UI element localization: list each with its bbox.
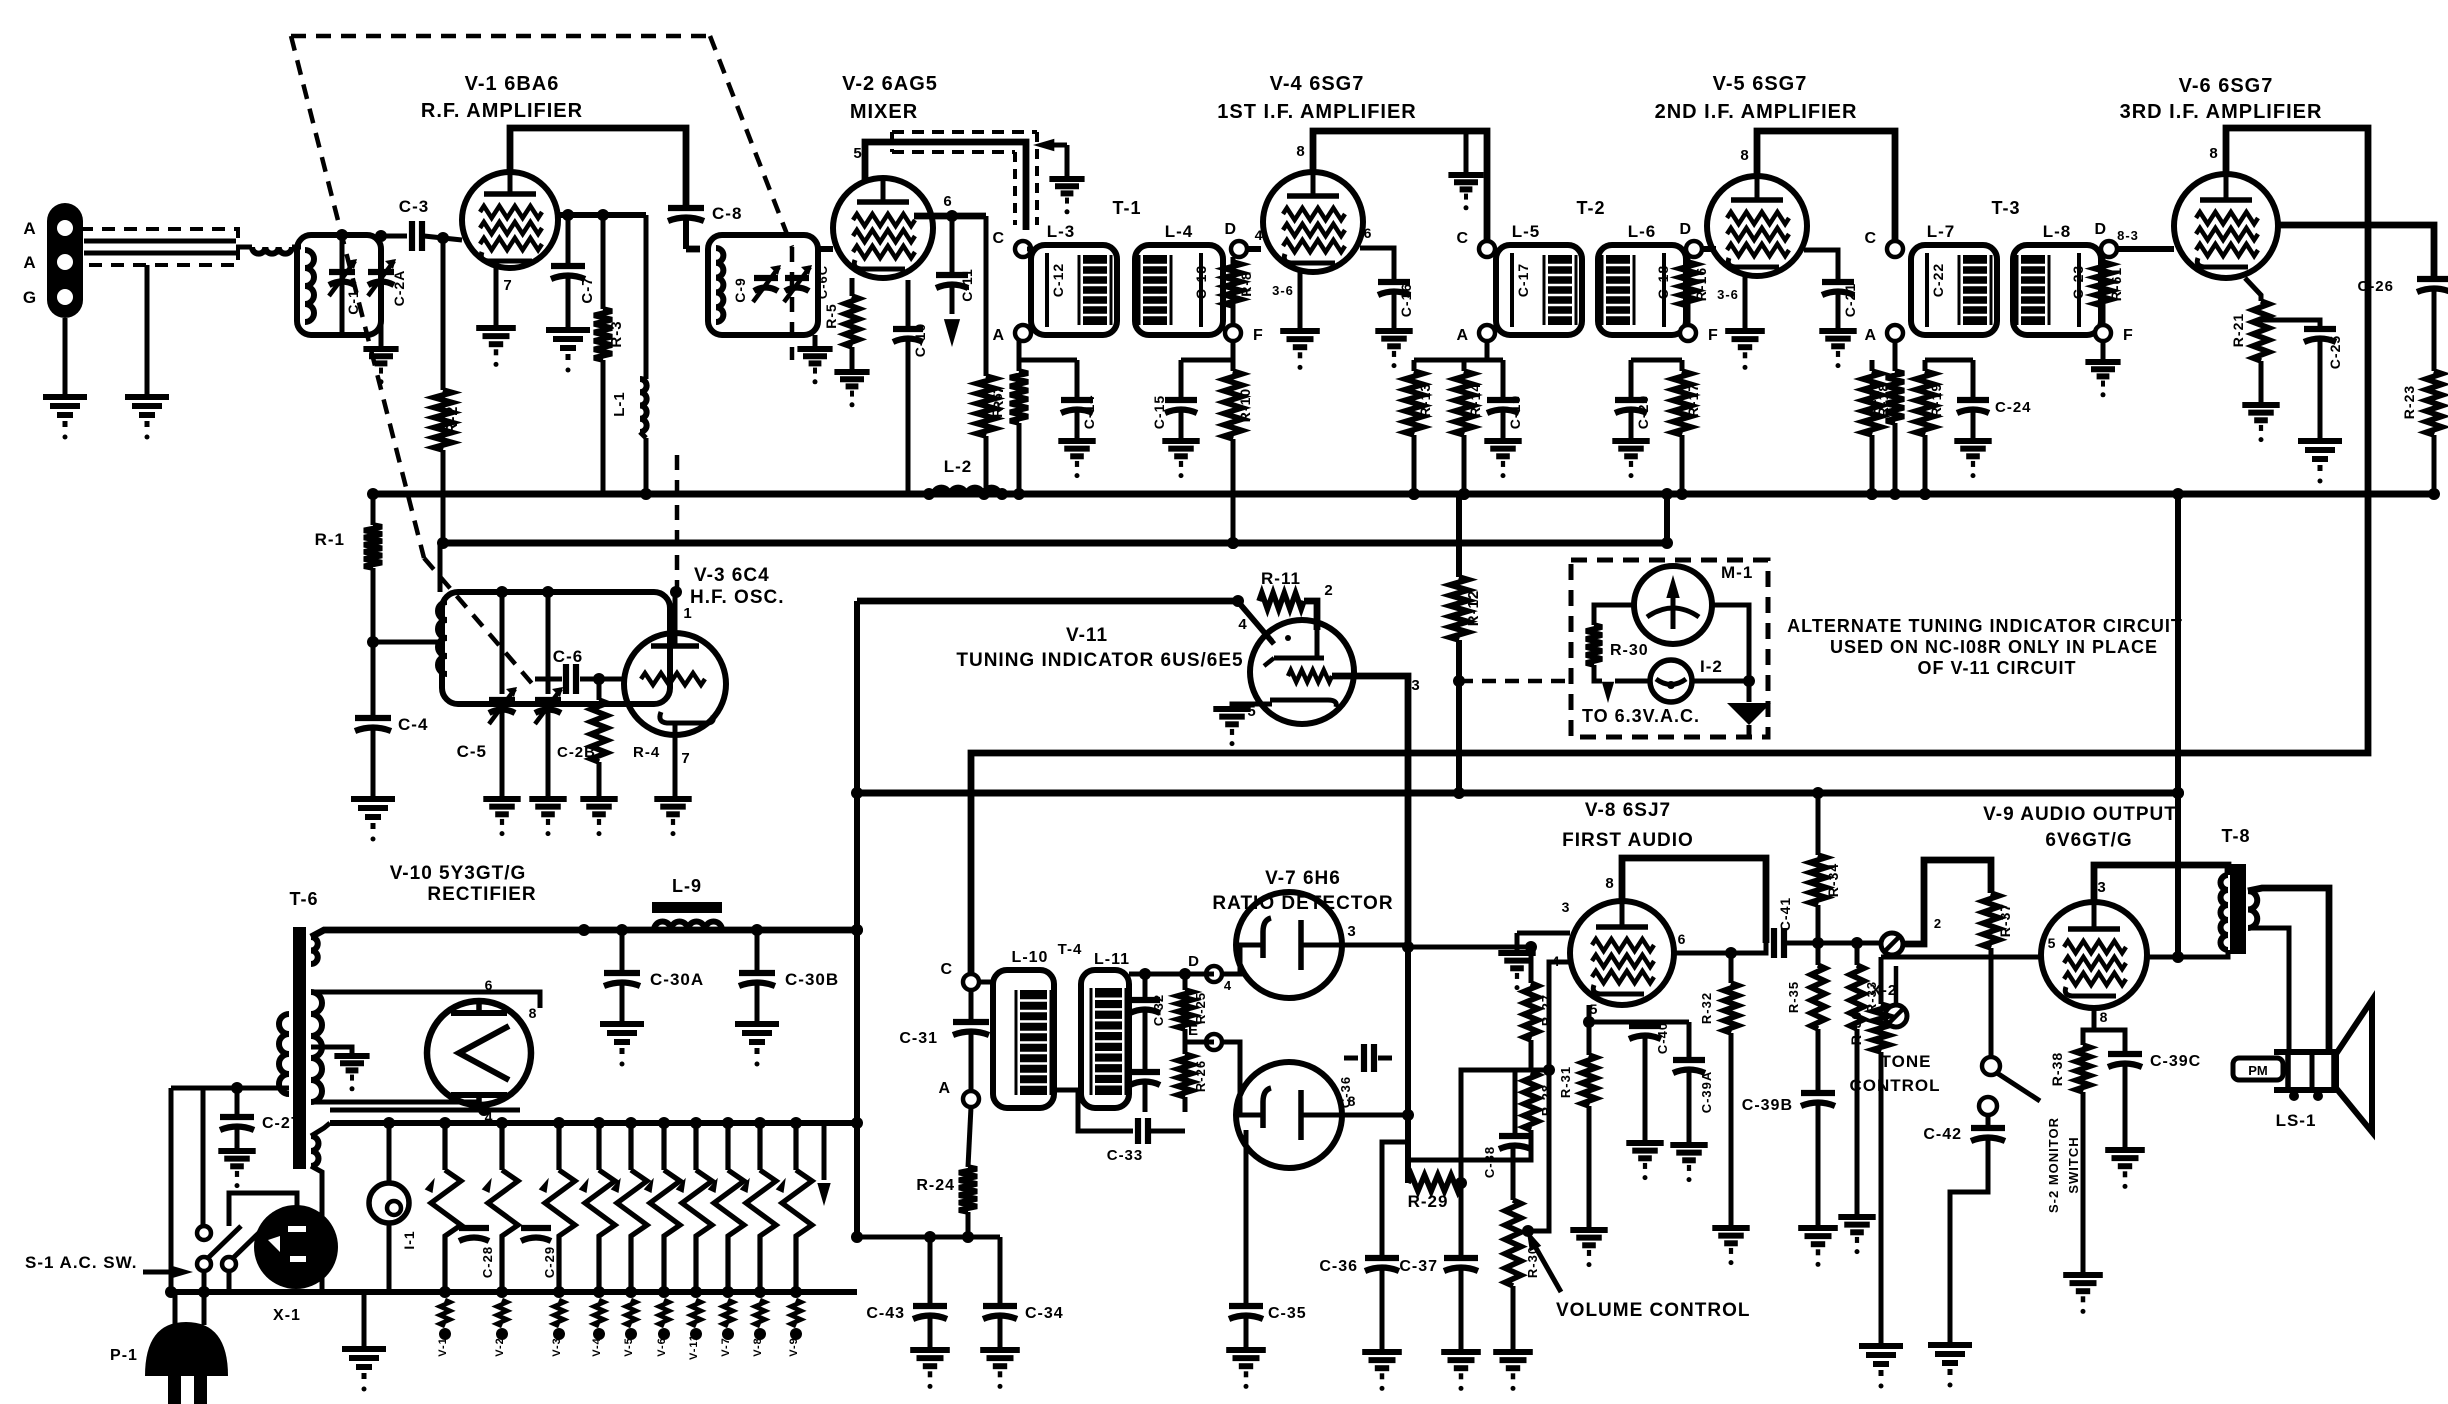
svg-text:TO 6.3V.A.C.: TO 6.3V.A.C.	[1582, 706, 1700, 726]
svg-text:R-13: R-13	[1417, 383, 1433, 417]
svg-text:TONE: TONE	[1881, 1052, 1932, 1071]
svg-text:L-8: L-8	[2043, 222, 2072, 241]
svg-text:V-5: V-5	[623, 1337, 635, 1357]
svg-text:L-3: L-3	[1047, 222, 1076, 241]
svg-text:A: A	[938, 1080, 951, 1097]
svg-text:3: 3	[1562, 899, 1571, 915]
svg-text:R-14: R-14	[1467, 383, 1483, 417]
svg-text:R-4: R-4	[633, 744, 660, 761]
svg-text:D: D	[1224, 221, 1237, 238]
svg-text:G: G	[23, 288, 37, 307]
svg-text:8: 8	[1605, 875, 1614, 892]
svg-text:R-37: R-37	[1997, 903, 2013, 937]
svg-text:C-21: C-21	[1842, 283, 1858, 317]
svg-text:T-1: T-1	[1112, 198, 1141, 218]
svg-text:8-3: 8-3	[2117, 228, 2139, 243]
svg-text:E: E	[1188, 1022, 1199, 1039]
svg-text:C-3: C-3	[399, 197, 429, 216]
svg-text:6: 6	[485, 977, 494, 993]
svg-text:V-1 6BA6: V-1 6BA6	[465, 73, 560, 95]
svg-text:PM: PM	[2248, 1063, 2268, 1078]
svg-text:R-17: R-17	[1685, 383, 1701, 417]
svg-text:C-43: C-43	[866, 1305, 905, 1322]
svg-text:C-32: C-32	[1151, 994, 1166, 1026]
svg-text:C-22: C-22	[1930, 263, 1946, 297]
svg-text:R-30: R-30	[1610, 642, 1649, 659]
svg-text:L-2: L-2	[944, 457, 973, 476]
svg-text:6: 6	[943, 193, 952, 210]
svg-text:L-9: L-9	[672, 876, 702, 896]
svg-text:SWITCH: SWITCH	[2066, 1136, 2081, 1193]
svg-text:R-5: R-5	[823, 303, 839, 329]
svg-text:R-36: R-36	[1848, 1011, 1864, 1045]
svg-text:R-10: R-10	[1237, 388, 1253, 422]
svg-text:C-7: C-7	[579, 276, 596, 303]
svg-text:C-20: C-20	[1635, 395, 1651, 429]
svg-text:T-3: T-3	[1991, 198, 2020, 218]
svg-text:C-38: C-38	[1482, 1146, 1497, 1178]
svg-text:C-12: C-12	[1050, 263, 1066, 297]
svg-text:A: A	[1456, 327, 1469, 344]
svg-text:D: D	[2094, 221, 2107, 238]
svg-text:C-36: C-36	[1338, 1076, 1353, 1108]
svg-text:C-5: C-5	[457, 742, 487, 761]
svg-text:R-3: R-3	[608, 320, 625, 347]
svg-text:C-8: C-8	[712, 204, 742, 223]
svg-text:V-10 5Y3GT/G: V-10 5Y3GT/G	[390, 863, 527, 884]
svg-text:L-11: L-11	[1094, 951, 1130, 968]
svg-text:R-32: R-32	[1699, 992, 1714, 1024]
svg-text:R-35: R-35	[1786, 981, 1801, 1013]
svg-text:A: A	[23, 219, 36, 238]
svg-text:R-19: R-19	[1928, 383, 1944, 417]
svg-text:C-25: C-25	[2327, 335, 2343, 369]
svg-text:C-6C: C-6C	[815, 265, 830, 299]
svg-text:C: C	[1456, 230, 1469, 247]
svg-text:A: A	[1864, 327, 1877, 344]
svg-text:R-61: R-61	[2108, 267, 2124, 301]
svg-text:D: D	[1679, 221, 1692, 238]
svg-text:L-7: L-7	[1927, 222, 1956, 241]
svg-text:USED ON NC-I08R ONLY IN PLACE: USED ON NC-I08R ONLY IN PLACE	[1830, 637, 2158, 657]
svg-text:R.F. AMPLIFIER: R.F. AMPLIFIER	[421, 100, 583, 122]
svg-text:TUNING INDICATOR 6US/6E5: TUNING INDICATOR 6US/6E5	[956, 650, 1243, 671]
svg-text:C-34: C-34	[1025, 1305, 1064, 1322]
svg-text:T-4: T-4	[1058, 941, 1083, 958]
svg-text:A: A	[992, 327, 1005, 344]
svg-text:C-6: C-6	[553, 647, 583, 666]
svg-text:C-19: C-19	[1507, 395, 1523, 429]
svg-text:C-37: C-37	[1399, 1258, 1438, 1275]
svg-text:C-14: C-14	[1081, 395, 1097, 429]
svg-text:C-27: C-27	[262, 1115, 301, 1132]
svg-text:V-2: V-2	[494, 1337, 506, 1357]
svg-text:2ND I.F. AMPLIFIER: 2ND I.F. AMPLIFIER	[1655, 101, 1858, 123]
svg-text:F: F	[1708, 327, 1719, 344]
svg-text:3: 3	[1411, 677, 1420, 694]
svg-text:C-1: C-1	[345, 289, 361, 315]
svg-text:V-4 6SG7: V-4 6SG7	[1270, 73, 1365, 95]
svg-text:C-29: C-29	[542, 1246, 557, 1278]
svg-text:5: 5	[2048, 935, 2057, 951]
svg-text:V-3 6C4: V-3 6C4	[694, 565, 770, 586]
svg-text:T-8: T-8	[2221, 826, 2250, 846]
svg-text:8: 8	[1740, 147, 1749, 164]
svg-text:R-34: R-34	[1825, 863, 1841, 897]
svg-text:8: 8	[2209, 145, 2218, 162]
svg-text:4: 4	[1552, 953, 1561, 969]
svg-text:C-36: C-36	[1319, 1258, 1358, 1275]
svg-text:V-6: V-6	[656, 1337, 668, 1357]
svg-text:R-8: R-8	[1238, 271, 1254, 297]
svg-text:L-10: L-10	[1012, 949, 1049, 966]
svg-text:H.F. OSC.: H.F. OSC.	[690, 587, 785, 608]
svg-text:C-15: C-15	[1151, 395, 1167, 429]
svg-text:1ST I.F. AMPLIFIER: 1ST I.F. AMPLIFIER	[1217, 101, 1417, 123]
svg-text:2: 2	[1934, 916, 1942, 931]
svg-text:C-10: C-10	[912, 323, 928, 357]
svg-text:R-2: R-2	[444, 406, 461, 435]
svg-text:C-23: C-23	[2070, 265, 2086, 299]
svg-text:C-11: C-11	[959, 268, 975, 302]
svg-text:A: A	[23, 253, 36, 272]
svg-text:4: 4	[1224, 978, 1232, 993]
svg-text:R-1: R-1	[315, 530, 345, 549]
svg-text:S-1 A.C. SW.: S-1 A.C. SW.	[25, 1253, 137, 1272]
svg-text:3-6: 3-6	[1272, 283, 1294, 298]
svg-text:V-8 6SJ7: V-8 6SJ7	[1585, 800, 1671, 821]
svg-text:6: 6	[1678, 931, 1687, 947]
svg-text:R-29: R-29	[1408, 1192, 1449, 1211]
svg-text:C-13: C-13	[1193, 265, 1209, 299]
svg-text:V-2 6AG5: V-2 6AG5	[842, 73, 938, 95]
svg-text:C: C	[992, 230, 1005, 247]
svg-text:C: C	[940, 961, 953, 978]
svg-text:R-23: R-23	[2401, 385, 2417, 419]
svg-text:C-30A: C-30A	[650, 970, 704, 989]
svg-text:C-40: C-40	[1655, 1022, 1670, 1054]
svg-text:C-42: C-42	[1923, 1126, 1962, 1143]
svg-text:R-16: R-16	[1693, 267, 1709, 301]
svg-text:C-39A: C-39A	[1699, 1071, 1714, 1114]
svg-text:R-38: R-38	[2049, 1052, 2065, 1086]
svg-text:3RD I.F. AMPLIFIER: 3RD I.F. AMPLIFIER	[2120, 101, 2323, 123]
svg-text:3: 3	[2097, 879, 2106, 896]
svg-text:X-1: X-1	[273, 1307, 301, 1324]
svg-text:C-2A: C-2A	[391, 270, 407, 307]
svg-text:C-26: C-26	[2357, 278, 2394, 295]
svg-text:C-39B: C-39B	[1742, 1097, 1793, 1114]
svg-text:7: 7	[503, 277, 512, 294]
svg-text:R-25: R-25	[1193, 992, 1208, 1024]
svg-text:3: 3	[1347, 923, 1356, 940]
svg-text:C-41: C-41	[1777, 897, 1793, 931]
svg-text:8: 8	[2100, 1009, 2109, 1025]
svg-text:C-35: C-35	[1268, 1305, 1307, 1322]
svg-text:2: 2	[1324, 582, 1333, 599]
svg-text:R-31: R-31	[1558, 1066, 1573, 1098]
svg-text:L-6: L-6	[1628, 222, 1657, 241]
svg-text:C-4: C-4	[398, 715, 428, 734]
svg-text:D: D	[1188, 953, 1200, 970]
svg-text:V-9 AUDIO OUTPUT: V-9 AUDIO OUTPUT	[1983, 804, 2177, 825]
svg-text:C-18: C-18	[1655, 265, 1671, 299]
svg-text:RECTIFIER: RECTIFIER	[427, 884, 536, 905]
svg-text:FIRST AUDIO: FIRST AUDIO	[1562, 830, 1694, 851]
svg-text:R-30: R-30	[1525, 1246, 1540, 1278]
svg-text:VOLUME CONTROL: VOLUME CONTROL	[1556, 1300, 1751, 1321]
svg-text:V-7 6H6: V-7 6H6	[1265, 868, 1341, 889]
svg-text:R-26: R-26	[1193, 1060, 1208, 1092]
svg-text:I-1: I-1	[401, 1230, 417, 1249]
svg-text:V-9: V-9	[788, 1337, 800, 1357]
svg-text:C-30B: C-30B	[785, 970, 839, 989]
svg-text:R-7: R-7	[990, 385, 1006, 411]
svg-text:5: 5	[1247, 703, 1256, 720]
svg-text:R-21: R-21	[2230, 313, 2246, 347]
svg-text:C-17: C-17	[1515, 263, 1531, 297]
svg-text:CONTROL: CONTROL	[1849, 1076, 1940, 1095]
svg-text:T-2: T-2	[1576, 198, 1605, 218]
svg-text:C-33: C-33	[1107, 1147, 1144, 1164]
svg-text:C-39C: C-39C	[2150, 1053, 2201, 1070]
svg-text:7: 7	[681, 750, 690, 767]
svg-text:R-24: R-24	[916, 1177, 955, 1194]
svg-text:C-24: C-24	[1995, 399, 2032, 416]
svg-text:C: C	[1864, 230, 1877, 247]
svg-text:R-11: R-11	[1261, 569, 1301, 588]
svg-text:LS-1: LS-1	[2276, 1111, 2317, 1130]
svg-text:V-8: V-8	[752, 1337, 764, 1357]
svg-text:V-5 6SG7: V-5 6SG7	[1713, 73, 1808, 95]
svg-text:V-1: V-1	[437, 1337, 449, 1357]
svg-text:P-1: P-1	[110, 1347, 138, 1364]
svg-text:L-1: L-1	[611, 391, 628, 417]
svg-text:OF V-11 CIRCUIT: OF V-11 CIRCUIT	[1917, 658, 2076, 678]
svg-text:T-6: T-6	[289, 889, 318, 909]
svg-text:8: 8	[529, 1005, 538, 1021]
svg-text:L-5: L-5	[1512, 222, 1541, 241]
svg-text:5: 5	[853, 145, 862, 162]
svg-text:V-4: V-4	[591, 1337, 603, 1357]
svg-text:R-20: R-20	[1866, 381, 1882, 415]
svg-text:V-7: V-7	[720, 1337, 732, 1357]
svg-text:MIXER: MIXER	[850, 101, 918, 123]
svg-text:C-9: C-9	[732, 277, 748, 303]
svg-text:ALTERNATE TUNING INDICATOR CIR: ALTERNATE TUNING INDICATOR CIRCUIT	[1787, 616, 2183, 636]
svg-text:M-1: M-1	[1721, 563, 1753, 582]
svg-text:R-12: R-12	[1465, 590, 1482, 627]
svg-text:5: 5	[1590, 1001, 1599, 1017]
svg-text:V-6 6SG7: V-6 6SG7	[2179, 75, 2274, 97]
svg-text:F: F	[2123, 327, 2134, 344]
svg-text:V-3: V-3	[551, 1337, 563, 1357]
svg-text:V-11: V-11	[1066, 625, 1108, 646]
svg-text:6: 6	[1364, 225, 1373, 241]
svg-text:S-2 MONITOR: S-2 MONITOR	[2046, 1117, 2061, 1213]
svg-text:L-4: L-4	[1165, 222, 1194, 241]
svg-text:C-28: C-28	[480, 1246, 495, 1278]
svg-text:3-6: 3-6	[1717, 287, 1739, 302]
svg-text:C-31: C-31	[899, 1030, 938, 1047]
svg-text:C-16: C-16	[1398, 283, 1414, 317]
svg-text:I-2: I-2	[1700, 657, 1723, 676]
svg-text:8: 8	[1296, 143, 1305, 160]
svg-text:F: F	[1253, 327, 1264, 344]
svg-text:6V6GT/G: 6V6GT/G	[2045, 830, 2132, 851]
svg-text:4: 4	[1238, 616, 1247, 633]
